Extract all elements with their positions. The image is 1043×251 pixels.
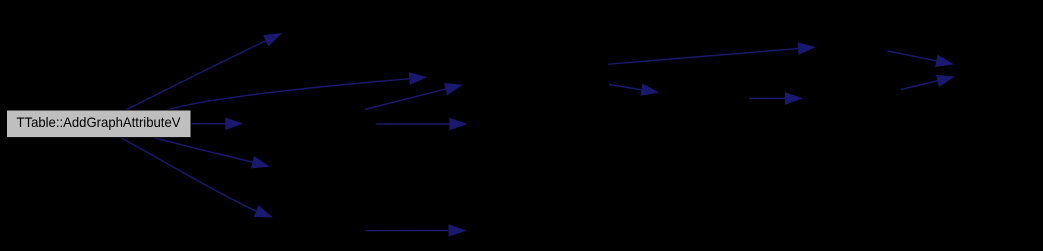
edge: TTable::AddGraphAttributeV -> node4 (horizontal) [192, 118, 242, 129]
edge: node11 -> node12 (up-right) [901, 75, 954, 89]
edge: node4 -> node7 (horizontal) [376, 118, 466, 129]
edge: TTable::AddGraphAttributeV -> node5 (down-right) [154, 138, 269, 168]
edge: TTable::AddGraphAttributeV -> node6 (steep curve) [121, 138, 272, 217]
edge: node9 -> node12 (down-right) [888, 51, 953, 66]
edge: node6 -> node8 (horizontal) [365, 225, 465, 236]
svg-text:TTable::AddGraphAttributeV: TTable::AddGraphAttributeV [17, 114, 182, 130]
node: TTable::AddGraphAttributeV (highlighted, grey fill) [7, 110, 192, 138]
edge: node7 -> node10 (short) [609, 84, 658, 95]
edge: TTable::AddGraphAttributeV -> node2 (up-right) [126, 34, 281, 110]
edge: node7 -> node9 (long shallow) [608, 43, 814, 64]
edge: node4 -> node3b (rising) [365, 84, 462, 110]
edge: TTable::AddGraphAttributeV -> node3 (long shallow) [167, 73, 426, 110]
edge: node10 -> node11 (horizontal) [749, 93, 802, 104]
